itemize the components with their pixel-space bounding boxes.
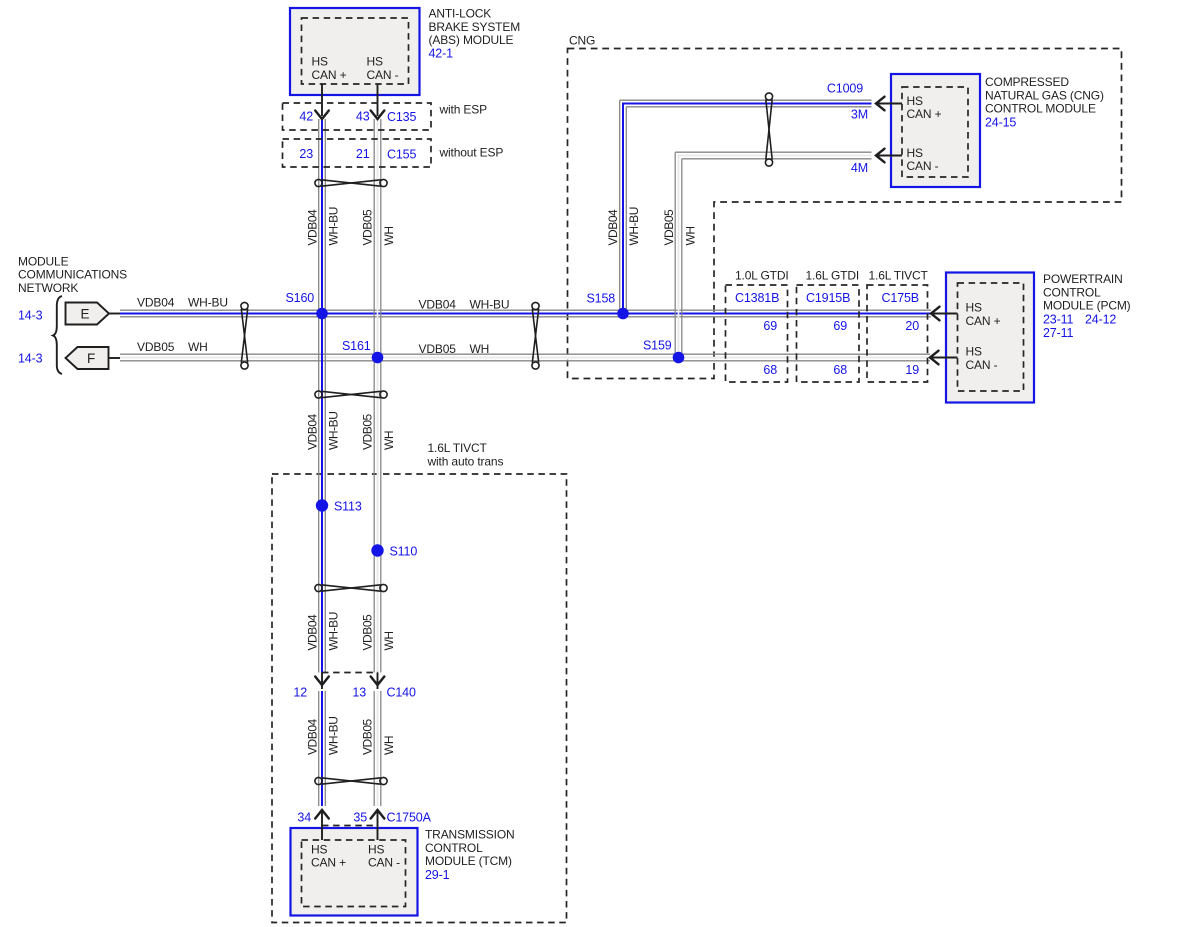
CNG pin lead 3M [876, 103, 902, 105]
wire label VDB04 WH-BU mid horizontal [419, 298, 510, 312]
ABS pin lead HS CAN + [321, 84, 323, 116]
svg-text:VDB05: VDB05 [137, 340, 175, 354]
svg-text:CAN +: CAN + [312, 68, 347, 82]
connector E lead [109, 313, 120, 315]
svg-text:S160: S160 [286, 291, 315, 305]
svg-text:C175B: C175B [882, 291, 919, 305]
svg-text:CAN -: CAN - [367, 68, 399, 82]
svg-text:1.6L TIVCT: 1.6L TIVCT [869, 269, 929, 283]
svg-text:S161: S161 [342, 339, 371, 353]
connector C135 pin labels [299, 109, 416, 124]
wire VDB05 WH CNG vertical drop [674, 152, 676, 357]
wire VDB05 WH CNG horizontal to CNG module pin 4M [675, 151, 871, 153]
TCM pin HS CAN + label [311, 842, 346, 869]
svg-text:34: 34 [297, 811, 311, 825]
splice S160 [316, 308, 328, 320]
svg-text:14-3: 14-3 [18, 309, 43, 323]
connector C1750A dashed line [322, 825, 378, 827]
svg-text:WH-BU: WH-BU [327, 207, 341, 245]
splice S110 [371, 544, 383, 556]
svg-text:COMMUNICATIONS: COMMUNICATIONS [18, 268, 127, 282]
svg-text:13: 13 [352, 686, 366, 700]
wire labels VDB04/WH-BU/VDB05/WH above S160 [306, 207, 397, 245]
wire VDB05 WH horizontal bus (F to PCM pin 19) [120, 353, 930, 355]
svg-text:CONTROL: CONTROL [1043, 285, 1101, 299]
splice S159 [673, 352, 685, 364]
ABS module box [290, 8, 420, 95]
svg-text:WH: WH [382, 631, 396, 650]
svg-text:CONTROL: CONTROL [425, 841, 483, 855]
C140 lead VDB04 [321, 673, 323, 690]
twisted pair symbol below S161 [315, 391, 387, 398]
svg-text:WH: WH [684, 226, 698, 245]
svg-text:BRAKE SYSTEM: BRAKE SYSTEM [429, 20, 521, 34]
svg-text:CNG: CNG [569, 34, 595, 48]
C1750A pin labels [297, 811, 431, 825]
svg-text:MODULE (TCM): MODULE (TCM) [425, 854, 512, 868]
twisted pair symbol right of S160/S161 [532, 302, 539, 369]
svg-text:3M: 3M [851, 107, 868, 121]
svg-text:29-1: 29-1 [425, 868, 450, 882]
TCM module inner dashed box [302, 840, 406, 907]
svg-text:VDB05: VDB05 [419, 342, 457, 356]
twisted pair symbol on E/F feed [241, 302, 248, 369]
wire label VDB04 WH-BU left horizontal [137, 296, 228, 310]
svg-text:C1009: C1009 [827, 82, 863, 96]
PCM pin lead 19 [932, 357, 958, 359]
TCM module box [291, 828, 418, 916]
connector E (off-page, points right) [66, 303, 110, 325]
wire labels VDB04/WH-BU/VDB05/WH on CNG drop [606, 207, 698, 245]
PCM module box [946, 273, 1034, 403]
svg-text:HS: HS [312, 55, 329, 69]
svg-text:MODULE: MODULE [18, 254, 69, 268]
connector C1381B dashed box [726, 285, 788, 382]
ABS module title [429, 7, 521, 61]
svg-text:35: 35 [353, 811, 367, 825]
svg-text:68: 68 [833, 363, 847, 377]
svg-text:C1915B: C1915B [806, 291, 850, 305]
svg-text:VDB04: VDB04 [137, 296, 175, 310]
TCM pin lead stubs inside module [321, 827, 323, 840]
svg-text:NATURAL GAS (CNG): NATURAL GAS (CNG) [985, 88, 1104, 102]
svg-text:WH: WH [188, 340, 208, 354]
CNG pin HS CAN - label [907, 146, 939, 173]
svg-text:WH-BU: WH-BU [327, 612, 341, 650]
svg-text:CAN -: CAN - [966, 358, 998, 372]
svg-text:69: 69 [763, 319, 777, 333]
svg-text:with auto trans: with auto trans [427, 454, 504, 468]
connector C135 dashed box (with ESP) [283, 103, 432, 130]
svg-text:VDB04: VDB04 [306, 413, 320, 450]
svg-text:COMPRESSED: COMPRESSED [985, 75, 1069, 89]
svg-text:1.6L GTDI: 1.6L GTDI [806, 269, 860, 283]
svg-text:14-3: 14-3 [18, 352, 43, 366]
svg-text:42-1: 42-1 [429, 46, 454, 60]
wire VDB04 WH-BU horizontal bus (E to PCM pin 20) [120, 309, 931, 311]
svg-text:WH: WH [382, 226, 396, 245]
svg-text:WH-BU: WH-BU [327, 717, 341, 755]
svg-text:S158: S158 [587, 292, 616, 306]
svg-text:WH: WH [382, 431, 396, 450]
svg-text:VDB04: VDB04 [306, 209, 320, 246]
svg-text:VDB05: VDB05 [361, 209, 375, 246]
svg-text:TRANSMISSION: TRANSMISSION [425, 828, 515, 842]
svg-text:VDB05: VDB05 [361, 614, 375, 651]
svg-text:21: 21 [356, 147, 370, 161]
svg-text:CONTROL MODULE: CONTROL MODULE [985, 102, 1096, 116]
twisted pair symbol on CNG module feed [765, 93, 772, 166]
connector C155 dashed box (without ESP) [283, 139, 432, 167]
ABS module inner dashed box [302, 18, 409, 84]
svg-text:24-15: 24-15 [985, 115, 1016, 129]
wire label VDB05 WH left horizontal [137, 340, 208, 354]
wire VDB04 WH-BU CNG vertical drop [619, 100, 621, 313]
twisted pair symbol above S160 [315, 179, 387, 186]
svg-text:23: 23 [299, 147, 313, 161]
svg-text:VDB04: VDB04 [306, 614, 320, 651]
svg-text:NETWORK: NETWORK [18, 281, 78, 295]
svg-text:VDB04: VDB04 [306, 718, 320, 755]
wire VDB04 WH-BU CNG horizontal to CNG module pin 3M [620, 99, 872, 101]
PCM pin HS CAN - label [966, 345, 998, 372]
wire labels VDB04/WH-BU/VDB05/WH below S161 [306, 412, 397, 450]
splice S113 [316, 499, 328, 511]
wire VDB04 WH-BU vertical ABS branch upper [318, 119, 320, 673]
svg-text:43: 43 [356, 109, 370, 123]
wire VDB05 WH vertical ABS branch lower (C140 to C1750A) [373, 691, 375, 806]
wire VDB04 WH-BU vertical ABS branch lower (C140 to C1750A) [318, 691, 320, 806]
CNG pin lead 4M [876, 155, 902, 157]
svg-text:HS: HS [311, 842, 328, 856]
svg-text:E: E [81, 307, 90, 322]
svg-text:C1750A: C1750A [387, 811, 432, 825]
svg-text:23-11: 23-11 [1043, 312, 1073, 326]
ABS pin lead HS CAN - [377, 84, 379, 116]
svg-text:S113: S113 [334, 500, 362, 514]
svg-text:(ABS) MODULE: (ABS) MODULE [429, 33, 514, 47]
C1750A lead HS CAN + [321, 812, 323, 840]
svg-text:with ESP: with ESP [439, 103, 488, 117]
connector F (off-page, points left) [66, 347, 109, 369]
C1750A lead HS CAN - [377, 812, 379, 840]
connector F lead [109, 357, 121, 359]
ABS pin HS CAN + label [312, 55, 347, 82]
svg-text:12: 12 [293, 686, 307, 700]
module communications network title [18, 254, 127, 295]
svg-text:S159: S159 [643, 339, 672, 353]
svg-text:42: 42 [299, 109, 313, 123]
svg-text:WH-BU: WH-BU [627, 207, 641, 245]
ABS pin HS CAN - label [367, 55, 399, 82]
svg-text:C155: C155 [387, 147, 416, 161]
splice S161 [372, 352, 384, 364]
svg-text:C135: C135 [387, 110, 416, 124]
connector C1915B dashed box [797, 285, 860, 382]
svg-text:27-11: 27-11 [1043, 326, 1073, 340]
C140 pin labels [293, 686, 416, 700]
svg-text:24-12: 24-12 [1085, 312, 1116, 326]
svg-text:HS: HS [368, 842, 385, 856]
wire VDB05 WH vertical ABS branch upper [373, 119, 375, 673]
svg-text:CAN +: CAN + [907, 107, 942, 121]
svg-text:CAN +: CAN + [311, 856, 346, 870]
PCM module title [1043, 272, 1131, 340]
CNG module title [985, 75, 1104, 129]
svg-text:WH: WH [470, 342, 490, 356]
svg-text:4M: 4M [851, 161, 868, 175]
svg-text:C1381B: C1381B [735, 291, 779, 305]
connector C175B dashed box [867, 285, 928, 382]
svg-text:69: 69 [833, 319, 847, 333]
connector C140 dashed line [322, 672, 378, 674]
1.6L TIVCT with auto trans region dashed box [272, 474, 567, 923]
svg-text:1.6L TIVCT: 1.6L TIVCT [428, 441, 488, 455]
brace [53, 296, 62, 374]
svg-text:VDB05: VDB05 [361, 718, 375, 755]
svg-text:HS: HS [966, 301, 983, 315]
svg-text:1.0L GTDI: 1.0L GTDI [735, 269, 789, 283]
TCM pin HS CAN - label [368, 842, 400, 869]
svg-text:MODULE (PCM): MODULE (PCM) [1043, 299, 1131, 313]
twisted pair symbol below S110 [315, 584, 387, 591]
svg-text:C140: C140 [387, 686, 416, 700]
CNG option region dashed boundary [568, 49, 1122, 379]
svg-text:CAN -: CAN - [368, 856, 400, 870]
PCM pin HS CAN + label [966, 301, 1001, 328]
CNG module inner dashed box [902, 87, 968, 177]
svg-text:without ESP: without ESP [439, 146, 504, 160]
svg-text:VDB05: VDB05 [662, 209, 676, 246]
svg-text:19: 19 [905, 363, 919, 377]
svg-text:20: 20 [905, 319, 919, 333]
TCM module title [425, 828, 515, 882]
svg-text:HS: HS [907, 94, 924, 108]
C140 lead VDB05 [377, 673, 379, 690]
svg-text:WH: WH [382, 736, 396, 755]
svg-text:WH-BU: WH-BU [327, 412, 341, 450]
wire labels VDB04/WH-BU/VDB05/WH above C140 [306, 612, 397, 650]
connector C155 pin labels [299, 147, 416, 162]
wire label VDB05 WH mid horizontal [419, 342, 490, 356]
svg-text:POWERTRAIN: POWERTRAIN [1043, 272, 1123, 286]
svg-text:VDB05: VDB05 [361, 413, 375, 450]
PCM module inner dashed box [958, 283, 1024, 391]
svg-text:68: 68 [763, 363, 777, 377]
svg-text:CAN -: CAN - [907, 159, 939, 173]
1.6L TIVCT region label [427, 441, 504, 468]
svg-text:WH-BU: WH-BU [470, 298, 510, 312]
svg-text:WH-BU: WH-BU [188, 296, 228, 310]
svg-text:VDB04: VDB04 [606, 209, 620, 246]
wire labels VDB04/WH-BU/VDB05/WH below C140 [306, 717, 397, 755]
svg-text:HS: HS [966, 345, 983, 359]
svg-text:VDB04: VDB04 [419, 298, 457, 312]
svg-text:CAN +: CAN + [966, 314, 1001, 328]
splice S158 [617, 308, 629, 320]
CNG pin HS CAN + label [907, 94, 942, 121]
CNG control module box [891, 74, 980, 187]
svg-text:F: F [87, 351, 95, 366]
svg-text:ANTI-LOCK: ANTI-LOCK [429, 7, 492, 21]
PCM pin lead 20 [933, 313, 958, 315]
svg-text:HS: HS [367, 55, 384, 69]
twisted pair symbol above C1750A [315, 777, 387, 784]
svg-text:S110: S110 [390, 545, 418, 559]
svg-text:HS: HS [907, 146, 924, 160]
